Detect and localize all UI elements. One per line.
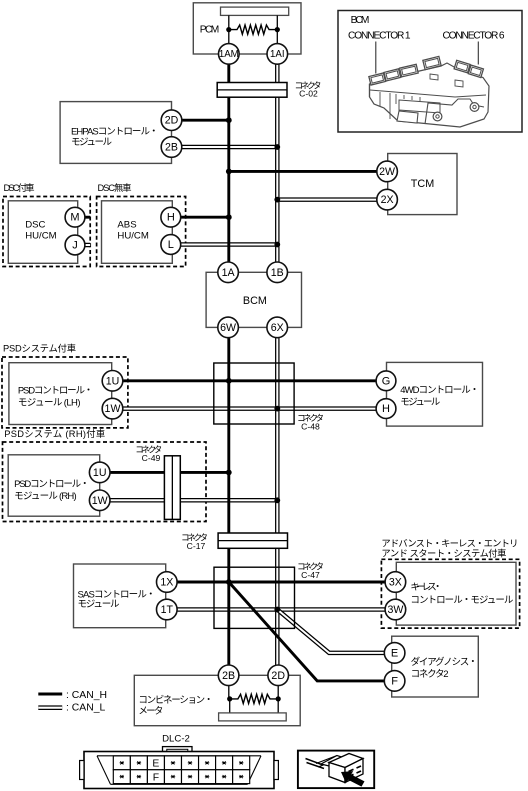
node PCM resistor right <box>275 27 280 32</box>
pin E <box>384 643 405 664</box>
label PSD system fitted <box>3 343 76 354</box>
label diagnosis connector 2 <box>411 656 478 680</box>
pin 1W RH <box>89 490 110 511</box>
pin M <box>65 207 85 227</box>
legend CAN_H text <box>66 690 107 701</box>
svg-text:HU/CM: HU/CM <box>25 231 56 242</box>
label connector C-49 <box>135 445 162 463</box>
ECU box DSC HU/CM <box>8 201 77 263</box>
svg-text:F: F <box>391 675 398 687</box>
svg-text:HU/CM: HU/CM <box>117 231 148 242</box>
resistor PCM terminating <box>229 25 277 34</box>
pin 1AM <box>219 44 240 65</box>
svg-text:3X: 3X <box>389 577 402 589</box>
pin 2D <box>268 665 289 686</box>
label CONNECTOR 6 <box>443 31 505 42</box>
svg-text:コンビネーション・: コンビネーション・ <box>138 695 213 706</box>
svg-text:G: G <box>382 375 391 387</box>
wire 1U RH to CAN_H <box>110 471 229 474</box>
svg-text:F: F <box>153 772 159 783</box>
wire CAN_H diagonal to F <box>229 582 385 681</box>
label EHPAS control module <box>71 126 159 148</box>
wire 2D to meter resistor <box>277 686 279 699</box>
label DSC HU/CM <box>25 220 56 242</box>
legend CAN_L sample <box>38 705 62 710</box>
label DSC not fitted <box>98 182 132 193</box>
pin 1U LH <box>102 371 123 392</box>
pin 1W LH <box>102 398 123 419</box>
svg-text:アンド スタート・システム付車: アンド スタート・システム付車 <box>381 547 506 558</box>
label BCM (illustration) <box>351 15 370 26</box>
svg-text:2D: 2D <box>165 115 179 127</box>
svg-text:3W: 3W <box>387 604 403 616</box>
svg-text:モジュール: モジュール <box>71 137 112 148</box>
ECU box EHPAS control module <box>60 102 171 164</box>
pin G <box>376 371 396 391</box>
svg-text:BCM: BCM <box>243 295 267 307</box>
svg-text:: CAN_L: : CAN_L <box>66 702 105 713</box>
svg-text:: CAN_H: : CAN_H <box>66 690 107 701</box>
svg-text:キーレス・: キーレス・ <box>410 582 442 593</box>
leader line CONNECTOR 1 <box>375 42 377 74</box>
ECU box SAS control module <box>74 564 166 628</box>
label 4WD control module <box>400 385 479 408</box>
node CAN_H at 1X <box>226 579 232 585</box>
option dashed box ABS <box>97 197 186 267</box>
wire 1T to 3W <box>177 607 385 612</box>
label connector C-48 <box>297 413 324 432</box>
node CAN_L at 1T <box>274 607 280 613</box>
legend CAN_H sample <box>38 693 62 696</box>
svg-text:H: H <box>167 212 175 224</box>
wire meter resistor to bar left <box>229 699 231 713</box>
svg-text:DLC-2: DLC-2 <box>162 734 190 745</box>
wire L to CAN_L <box>181 242 278 247</box>
connector C-48 outline <box>214 363 294 424</box>
connector C-47 outline <box>214 567 295 628</box>
node CAN_L at 2B <box>274 144 280 150</box>
pin 6X <box>267 317 288 338</box>
pin 3X <box>385 572 406 593</box>
node CAN_L at 1W RH <box>274 497 280 503</box>
option dashed box PSD LH <box>2 357 128 428</box>
pin J <box>65 235 85 255</box>
pin L <box>161 235 181 255</box>
label TCM <box>411 178 434 190</box>
label DLC-2 <box>162 734 190 745</box>
node CAN_H at 1U RH <box>226 470 232 476</box>
svg-text:TCM: TCM <box>411 178 434 190</box>
svg-text:E: E <box>391 647 398 659</box>
BCM illustration frame <box>338 11 522 133</box>
pin 2X <box>377 189 398 210</box>
node CAN_L at 1W LH <box>274 406 280 412</box>
svg-text:モジュール: モジュール <box>78 599 120 610</box>
svg-text:2W: 2W <box>379 166 395 178</box>
svg-text:PSDコントロール・: PSDコントロール・ <box>14 479 89 490</box>
label advanced keyless line2 <box>381 547 506 558</box>
wire 2W to CAN_H <box>229 170 377 173</box>
svg-text:J: J <box>72 240 78 252</box>
pin F <box>384 671 405 692</box>
svg-text:C-49: C-49 <box>142 453 161 463</box>
option dashed box PSD RH <box>3 442 207 522</box>
PCM internal bus bar <box>221 7 289 15</box>
pin 2W <box>377 161 398 182</box>
pin 2B <box>218 665 239 686</box>
label connector C-47 <box>297 562 324 581</box>
pin 3W <box>385 599 406 620</box>
wire H to CAN_H <box>181 216 229 219</box>
label keyless control module <box>410 582 513 606</box>
svg-text:2X: 2X <box>381 194 394 206</box>
svg-text:6W: 6W <box>220 322 236 334</box>
svg-text:1T: 1T <box>161 604 174 616</box>
svg-text:アドバンスト・キーレス・エントリ: アドバンスト・キーレス・エントリ <box>381 539 518 549</box>
svg-text:C-47: C-47 <box>301 570 320 580</box>
svg-text:2B: 2B <box>165 142 178 154</box>
ECU box keyless control module <box>396 562 516 625</box>
pin 1U RH <box>89 462 110 483</box>
svg-text:1A: 1A <box>222 267 236 279</box>
leader line CONNECTOR 6 <box>477 42 479 65</box>
wire PCM bar to resistor left <box>228 15 230 43</box>
wire CAN_L diagonal to E <box>277 610 384 653</box>
node meter resistor left <box>227 696 232 701</box>
svg-text:1X: 1X <box>160 577 173 589</box>
pin 1AI <box>267 44 288 65</box>
node CAN_H at 2W <box>226 169 232 175</box>
label connector C-02 <box>295 80 322 98</box>
svg-text:モジュール: モジュール <box>400 397 440 408</box>
connector C-17 band <box>218 533 287 548</box>
svg-text:2B: 2B <box>222 670 235 682</box>
node CAN_H at H <box>226 214 232 220</box>
pin 2D <box>161 110 182 131</box>
svg-text:BCM: BCM <box>351 15 370 26</box>
node meter resistor right <box>276 696 281 701</box>
label BCM <box>243 295 267 307</box>
wire 2X to CAN_L <box>277 197 377 202</box>
node PCM resistor left <box>226 27 231 32</box>
connector C-02 band <box>217 83 287 98</box>
wire CAN_H trunk (1AM to 2B) <box>227 65 230 666</box>
svg-text:PSDシステム (RH)付車: PSDシステム (RH)付車 <box>4 428 105 439</box>
svg-text:PSDシステム付車: PSDシステム付車 <box>3 343 76 354</box>
svg-text:C-48: C-48 <box>301 422 320 432</box>
label connector C-17 <box>181 533 208 552</box>
pin H <box>161 207 181 227</box>
svg-text:CONNECTOR 1: CONNECTOR 1 <box>348 31 411 42</box>
wire 1U LH to G <box>123 379 376 382</box>
svg-text:6X: 6X <box>271 322 284 334</box>
wire 1W LH to H <box>123 406 376 411</box>
svg-text:C-17: C-17 <box>187 541 206 551</box>
node CAN_H at 2D <box>226 117 232 123</box>
svg-text:H: H <box>382 403 390 415</box>
ECU box PSD control module RH <box>8 455 100 516</box>
pin 1B <box>267 262 288 283</box>
svg-text:メータ: メータ <box>138 706 163 717</box>
BCM module illustration <box>369 56 489 127</box>
pin H 4WD <box>376 399 396 419</box>
svg-text:CONNECTOR 6: CONNECTOR 6 <box>443 31 505 42</box>
label PCM <box>200 25 220 36</box>
svg-text:1AM: 1AM <box>219 49 239 60</box>
wire CAN_L trunk (1AI to 2D) <box>275 65 280 666</box>
svg-text:モジュール (RH): モジュール (RH) <box>14 491 77 502</box>
label ABS HU/CM <box>117 220 148 242</box>
svg-text:C-02: C-02 <box>299 89 318 99</box>
pin 1A <box>218 262 239 283</box>
ECU box PSD control module LH <box>9 363 112 425</box>
ECU box PCM <box>193 3 301 54</box>
svg-text:1AI: 1AI <box>270 49 285 60</box>
svg-text:コネクタ2: コネクタ2 <box>411 669 449 680</box>
svg-text:M: M <box>70 212 79 224</box>
label DSC fitted <box>4 182 35 193</box>
label PSD system RH fitted <box>4 428 105 439</box>
wire stub M <box>85 216 90 219</box>
wire 1W RH to CAN_L <box>110 498 277 503</box>
pin 1X <box>157 572 178 593</box>
label PSD control module RH <box>14 479 89 502</box>
svg-text:1U: 1U <box>93 467 107 479</box>
svg-text:PCM: PCM <box>200 25 220 36</box>
wire 2B to meter resistor <box>228 686 230 699</box>
svg-text:2D: 2D <box>271 670 285 682</box>
svg-text:1B: 1B <box>271 267 284 279</box>
svg-text:L: L <box>168 239 174 251</box>
node CAN_L at L <box>274 242 280 248</box>
svg-text:モジュール (LH): モジュール (LH) <box>18 398 81 409</box>
svg-text:DSC: DSC <box>25 220 45 231</box>
wire meter resistor to bar right <box>277 699 279 713</box>
label CONNECTOR 1 <box>348 31 411 42</box>
meter internal bus bar <box>219 713 287 721</box>
svg-text:1U: 1U <box>106 375 120 387</box>
ECU box combination meter <box>134 675 300 725</box>
wire 2B to CAN_L <box>182 145 277 150</box>
svg-text:4WDコントロール・: 4WDコントロール・ <box>400 385 479 396</box>
svg-text:1W: 1W <box>105 403 121 415</box>
ECU box 4WD control module <box>387 362 483 426</box>
resistor combination meter terminating <box>230 694 279 703</box>
label combination meter <box>138 695 213 717</box>
svg-text:ABS: ABS <box>117 220 136 231</box>
ECU box BCM <box>206 272 301 327</box>
svg-text:1W: 1W <box>92 495 108 507</box>
svg-text:DSC無車: DSC無車 <box>98 182 132 193</box>
wire stub J <box>85 243 90 248</box>
ECU box TCM <box>388 154 457 215</box>
ECU box ABS HU/CM <box>102 201 173 263</box>
ECU box diagnosis connector 2 <box>392 636 479 697</box>
wire 2D to CAN_H <box>182 119 229 122</box>
svg-text:E: E <box>152 758 159 769</box>
connector C-49 band <box>164 456 180 520</box>
svg-text:コントロール・モジュール: コントロール・モジュール <box>410 595 513 606</box>
node CAN_L at 2X <box>274 197 280 203</box>
pin 2B <box>161 137 182 158</box>
pin 1T <box>157 599 178 620</box>
pin 6W <box>218 317 239 338</box>
svg-text:ダイアグノシス・: ダイアグノシス・ <box>411 656 478 668</box>
legend CAN_L text <box>66 702 105 713</box>
svg-text:PSDコントロール・: PSDコントロール・ <box>18 385 93 396</box>
svg-text:DSC付車: DSC付車 <box>4 182 35 193</box>
option dashed box DSC <box>3 197 90 267</box>
wire PCM bar to resistor right <box>276 15 278 43</box>
label PSD control module LH <box>18 385 93 408</box>
wire 1X to 3X <box>177 581 385 584</box>
svg-text:EHPASコントロール・: EHPASコントロール・ <box>71 126 159 137</box>
connector location pictogram <box>298 751 374 789</box>
DLC-2 connector face <box>80 747 279 789</box>
option dashed box keyless <box>381 559 519 628</box>
node CAN_H at 1U LH <box>226 378 232 384</box>
label advanced keyless line1 <box>381 539 518 549</box>
label SAS control module <box>78 590 156 610</box>
